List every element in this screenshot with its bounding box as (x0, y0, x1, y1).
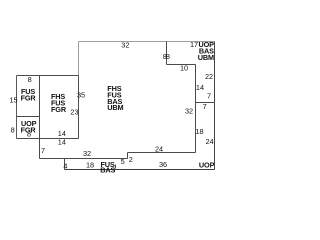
wire: bottom outer edge H7 (65, 169, 215, 171)
wire: left boxes divider H9 (17, 116, 40, 118)
wire: left boxes right edge / 7ft edge V9+V5 (39, 76, 41, 159)
svg-text:14: 14 (196, 83, 204, 92)
svg-text:18: 18 (196, 127, 204, 136)
svg-text:14: 14 (58, 137, 66, 146)
wire: small tick on H7 (114, 165, 116, 169)
svg-text:32: 32 (185, 106, 193, 115)
svg-text:8: 8 (166, 52, 170, 61)
svg-text:35: 35 (77, 90, 85, 99)
svg-text:4: 4 (63, 162, 67, 171)
svg-text:7: 7 (207, 91, 211, 100)
svg-text:36: 36 (159, 160, 167, 169)
svg-text:8: 8 (11, 125, 15, 134)
wire: outer right edge V4 (214, 42, 216, 170)
wire: bottom edge H6 (32ft) (40, 158, 128, 160)
svg-text:22: 22 (205, 72, 213, 81)
wire: main left edge V1 upper (gray) (78, 42, 80, 76)
svg-text:7: 7 (41, 146, 45, 155)
wire: step V7 (2ft) (127, 153, 129, 159)
svg-text:UBM: UBM (198, 53, 214, 62)
svg-text:7: 7 (203, 102, 207, 111)
svg-text:5: 5 (121, 157, 125, 166)
wire: divider H3 (7ft) (196, 102, 215, 104)
svg-text:10: 10 (180, 64, 188, 73)
svg-text:FGR: FGR (51, 105, 67, 114)
wire: inner right edge V3 (195, 65, 197, 153)
wire: bottom of left boxes H4 (14ft) (17, 138, 79, 140)
svg-text:8: 8 (28, 75, 32, 84)
svg-text:FGR: FGR (21, 126, 37, 135)
svg-text:BAS: BAS (100, 166, 115, 175)
svg-text:24: 24 (155, 144, 163, 153)
svg-text:32: 32 (83, 149, 91, 158)
wire: left boxes top H8 (17, 75, 79, 77)
svg-text:UOP: UOP (199, 160, 215, 169)
wire: jog H2 (10ft) (167, 64, 196, 66)
svg-text:15: 15 (10, 96, 18, 105)
svg-text:2: 2 (129, 155, 133, 164)
svg-text:17: 17 (190, 40, 198, 49)
wire: main top edge H1 (79, 41, 215, 43)
svg-text:18: 18 (86, 160, 94, 169)
svg-text:23: 23 (70, 107, 78, 116)
svg-text:FGR: FGR (21, 93, 37, 102)
wire: strip left edge V6 (4ft) (64, 159, 66, 170)
svg-text:24: 24 (206, 137, 214, 146)
wire: lower main bottom H5 (24ft) (128, 152, 196, 154)
svg-text:32: 32 (121, 40, 129, 49)
wire: main left edge V1 lower (dark) (78, 76, 80, 139)
wire: jog V2 (8ft) (166, 42, 168, 65)
wire: left outer edge V8 (16, 76, 18, 139)
svg-text:UBM: UBM (107, 103, 123, 112)
